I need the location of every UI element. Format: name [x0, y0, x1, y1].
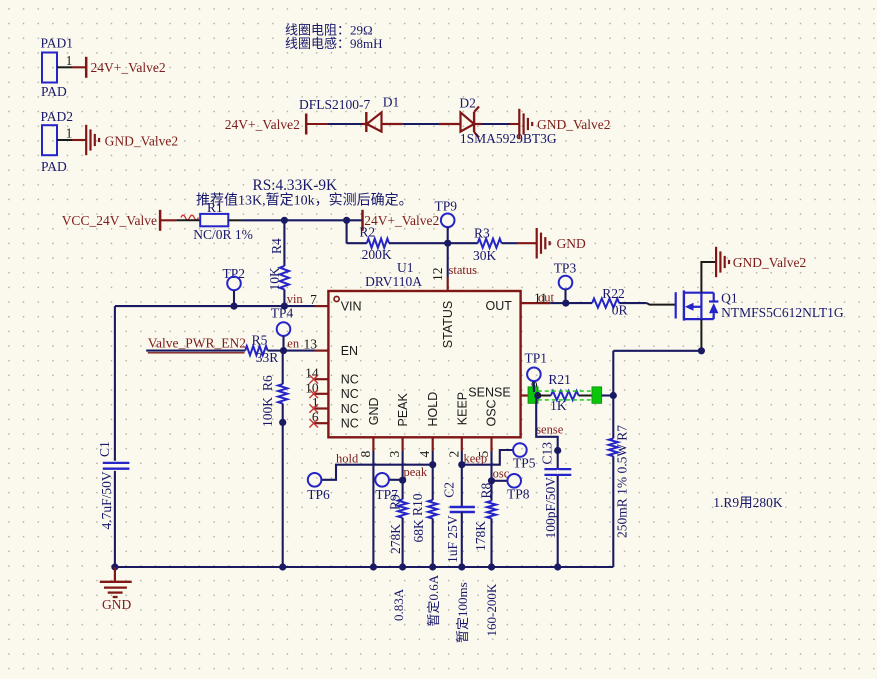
net label en [287, 337, 300, 351]
pin 13 EN [304, 337, 329, 352]
svg-text:3: 3 [387, 451, 402, 458]
svg-text:4: 4 [417, 451, 432, 458]
net label hold + TP6 wire [321, 452, 432, 480]
svg-text:R10: R10 [410, 493, 425, 516]
svg-text:100pF/50V: 100pF/50V [543, 477, 558, 539]
svg-text:en: en [287, 337, 300, 351]
svg-text:PAD2: PAD2 [41, 109, 74, 124]
net label peak + TP7 wire [389, 465, 428, 480]
junction R21/R7 [610, 392, 617, 399]
svg-text:SENSE: SENSE [468, 385, 510, 399]
svg-text:2: 2 [446, 451, 461, 458]
svg-text:vin: vin [287, 292, 304, 306]
capacitor C1 4.7uF/50V [97, 441, 129, 529]
svg-text:TP8: TP8 [507, 487, 530, 502]
test point TP5 [513, 443, 536, 470]
junction rail R6 [279, 563, 286, 570]
junction at TP9/STATUS node [444, 240, 451, 247]
wire ground rail [115, 566, 613, 568]
pin 10 NC [305, 380, 328, 398]
junction hold/HOLD pin [429, 461, 436, 468]
junction TP3/OUT [562, 300, 569, 307]
svg-text:RS:4.33K-9K: RS:4.33K-9K [253, 177, 338, 194]
svg-text:hold: hold [336, 452, 359, 466]
op-amp U1 DRV110A body [328, 260, 520, 437]
pin names of U1 [341, 299, 513, 431]
note coil resistance/inductance [285, 23, 383, 52]
svg-text:30K: 30K [473, 248, 497, 263]
power port VCC_24V_Valve [62, 210, 177, 231]
svg-text:GND_Valve2: GND_Valve2 [733, 255, 807, 270]
net label sense + wire to C13 [536, 396, 564, 568]
svg-text:R21: R21 [548, 372, 571, 387]
resistor R6 100K [260, 351, 287, 427]
test point TP6 [307, 473, 330, 502]
resistor R5 33R [245, 333, 283, 366]
svg-text:12: 12 [430, 268, 445, 282]
wire STATUS to node [447, 243, 449, 277]
pad right of R21 (highlight) [592, 387, 602, 403]
resistor R2 200K [347, 220, 448, 261]
svg-text:GND_Valve2: GND_Valve2 [105, 134, 179, 149]
svg-text:278K: 278K [388, 524, 403, 554]
svg-text:178K: 178K [473, 521, 488, 551]
wire R21 to R7 [602, 394, 614, 396]
svg-text:1SMA5929BT3G: 1SMA5929BT3G [460, 131, 557, 146]
pin 1 NC [309, 395, 328, 413]
note 0.83A [391, 588, 406, 621]
svg-text:R9: R9 [387, 494, 402, 510]
junction at R2 tap [343, 217, 350, 224]
junction sense wire [554, 447, 561, 454]
svg-text:暂定0.6A: 暂定0.6A [426, 574, 441, 626]
svg-text:status: status [449, 263, 478, 277]
svg-text:0R: 0R [612, 303, 628, 318]
svg-text:1: 1 [66, 53, 73, 68]
test point TP1 [525, 351, 548, 393]
test point TP3 [554, 261, 577, 304]
svg-text:DFLS2100-7: DFLS2100-7 [299, 97, 371, 112]
power port 24V+_Valve2 at PAD1 [72, 57, 166, 78]
svg-text:PAD1: PAD1 [41, 36, 74, 51]
svg-text:PEAK: PEAK [396, 392, 410, 426]
svg-text:推荐值13K,暂定10k，实测后确定。: 推荐值13K,暂定10k，实测后确定。 [196, 193, 413, 209]
junction keep/KEEP pin [458, 461, 465, 468]
svg-text:R5: R5 [252, 333, 268, 348]
power port 24V+_Valve2 at D1 [225, 114, 328, 135]
svg-text:GND: GND [557, 236, 586, 251]
pin 2 bottom of U1 [446, 437, 462, 457]
svg-text:keep: keep [464, 452, 488, 466]
svg-text:NC: NC [341, 417, 359, 431]
pin 8 bottom of U1 [358, 437, 374, 457]
pin 5 bottom of U1 [476, 437, 492, 457]
note 100ms [455, 582, 470, 643]
pin 4 bottom of U1 [417, 437, 433, 457]
junction osc/OSC pin [488, 477, 495, 484]
svg-text:STATUS: STATUS [441, 301, 455, 348]
svg-text:1: 1 [66, 126, 73, 141]
connector PAD2 [41, 109, 74, 174]
test point TP2 [223, 266, 246, 306]
svg-text:NTMFS5C612NLT1G: NTMFS5C612NLT1G [721, 305, 844, 320]
net label vin [287, 292, 304, 306]
svg-text:线圈电感：98mH: 线圈电感：98mH [285, 36, 383, 51]
pin 11 OUT [521, 291, 551, 306]
test point TP4 [271, 306, 294, 351]
test point TP9 [435, 199, 458, 244]
svg-text:24V+_Valve2: 24V+_Valve2 [225, 117, 300, 132]
svg-text:TP6: TP6 [307, 487, 330, 502]
junction rail left [111, 563, 118, 570]
wire R1 to 24V node [242, 219, 363, 221]
power port GND_Valve2 at Q1 [716, 247, 806, 277]
note 160-200K [484, 583, 499, 636]
note 0.6A [426, 574, 441, 626]
junction source [698, 347, 705, 354]
net label Valve_PWR_EN2 [148, 336, 246, 353]
svg-text:R1: R1 [207, 200, 223, 215]
svg-text:TP2: TP2 [223, 266, 246, 281]
pin 14 NC [305, 366, 328, 384]
power port 24V+_Valve2 at node [363, 210, 440, 231]
transistor Q1 NTMFS5C612NLT1G [676, 290, 844, 320]
svg-text:KEEP: KEEP [455, 392, 469, 425]
svg-text:Valve_PWR_EN2: Valve_PWR_EN2 [148, 336, 246, 351]
power port GND_Valve2 at D2 [510, 109, 611, 139]
svg-text:DRV110A: DRV110A [365, 274, 422, 289]
svg-text:TP3: TP3 [554, 261, 577, 276]
pin 1 of PAD1 [57, 53, 72, 68]
pin 3 bottom of U1 [387, 437, 403, 457]
svg-text:C13: C13 [540, 442, 555, 465]
note R9 use 280K [713, 495, 783, 510]
svg-text:EN: EN [341, 344, 358, 358]
resistor R9 278K on PEAK [387, 451, 407, 571]
svg-text:7: 7 [310, 292, 317, 307]
svg-text:PAD: PAD [41, 159, 67, 174]
pin 6 NC [309, 410, 328, 428]
svg-text:13: 13 [304, 337, 318, 352]
pin wire into R1 [176, 219, 200, 221]
wire source down [700, 319, 702, 351]
wire Valve_PWR_EN2 to R5 [146, 350, 245, 352]
capacitor C13 100pF/50V [540, 442, 572, 539]
power port GND_Valve2 at PAD2 [72, 125, 178, 155]
capacitor C2 1uF 25V on KEEP [441, 451, 475, 571]
svg-text:24V+_Valve2: 24V+_Valve2 [91, 60, 166, 75]
ground GND symbol [100, 567, 132, 612]
resistor R7 250mR [609, 351, 630, 567]
svg-text:OSC: OSC [485, 399, 499, 426]
junction rail C13 [554, 563, 561, 570]
wire left vertical [114, 306, 116, 567]
highlight dashes around R21 [538, 391, 594, 400]
wire drain to GND_Valve2 [701, 262, 716, 293]
svg-text:NC/0R 1%: NC/0R 1% [193, 227, 253, 242]
pin 12 STATUS [430, 268, 448, 292]
power port GND at R3 [517, 228, 586, 258]
wire to EN pin [284, 350, 315, 352]
svg-text:VIN: VIN [341, 300, 362, 314]
svg-text:NC: NC [341, 402, 359, 416]
junction TP2 [230, 303, 237, 310]
svg-text:TP4: TP4 [271, 306, 294, 321]
junction at R4 top [281, 217, 288, 224]
resistor R22 0R [566, 286, 647, 318]
svg-text:GND: GND [102, 597, 131, 612]
svg-text:U1: U1 [397, 260, 414, 275]
test point TP8 [507, 474, 530, 502]
note RS recommendation [196, 177, 413, 209]
pin 1 of PAD2 [57, 126, 72, 141]
wire 24V+_Valve2 to D1 [328, 123, 362, 125]
resistor R8 178K on OSC [473, 451, 496, 571]
svg-text:NC: NC [341, 387, 359, 401]
svg-text:peak: peak [404, 465, 428, 479]
wire source to R7 [613, 350, 701, 352]
resistor R3 30K [448, 225, 517, 262]
wire vin rail [115, 305, 315, 307]
svg-text:4.7uF/50V: 4.7uF/50V [99, 471, 114, 529]
svg-text:1.R9用280K: 1.R9用280K [713, 495, 783, 510]
diode D2 1SMA5929BT3G (zener) [439, 96, 557, 147]
svg-text:C2: C2 [441, 482, 456, 498]
svg-text:100K: 100K [260, 397, 275, 427]
svg-text:R4: R4 [269, 238, 284, 254]
wire GND pin 8 to rail [370, 451, 377, 571]
wire OUT to junction [550, 302, 566, 304]
resistor R1 NC/0R 1% [193, 200, 253, 242]
svg-text:160-200K: 160-200K [484, 583, 499, 636]
resistor R4 10K [267, 220, 289, 306]
pad left of R21 (highlight) [528, 387, 538, 403]
svg-text:C1: C1 [97, 441, 112, 457]
svg-text:PAD: PAD [41, 84, 67, 99]
svg-text:250mR 1% 0.5W R7: 250mR 1% 0.5W R7 [615, 425, 630, 538]
svg-text:8: 8 [358, 451, 373, 458]
svg-text:R2: R2 [359, 224, 375, 239]
junction R4 bottom [281, 303, 288, 310]
svg-text:33R: 33R [256, 350, 279, 365]
svg-text:HOLD: HOLD [426, 392, 440, 427]
svg-text:GND_Valve2: GND_Valve2 [537, 117, 611, 132]
svg-text:R22: R22 [602, 286, 625, 301]
svg-text:TP1: TP1 [525, 351, 548, 366]
pin 7 VIN [310, 292, 328, 307]
wire R6 to ground rail [282, 422, 284, 567]
svg-text:24V+_Valve2: 24V+_Valve2 [364, 213, 439, 228]
svg-text:D1: D1 [383, 95, 400, 110]
svg-text:R3: R3 [474, 225, 490, 240]
resistor R10 68K on HOLD [410, 451, 437, 571]
svg-text:NC: NC [341, 373, 359, 387]
svg-text:68K: 68K [411, 519, 426, 543]
pin 9 SENSE [521, 379, 538, 396]
junction sense node [534, 392, 541, 399]
net label keep + TP5 wire [462, 450, 513, 466]
svg-text:TP5: TP5 [513, 456, 536, 471]
wire D1 to D2 [402, 123, 439, 125]
svg-text:暂定100ms: 暂定100ms [455, 582, 470, 643]
diode D1 DFLS2100-7 [299, 95, 402, 133]
svg-text:200K: 200K [362, 247, 392, 262]
net label osc + TP8 wire [492, 467, 510, 481]
net label status [449, 263, 478, 277]
test point TP7 [375, 473, 398, 502]
svg-text:10K: 10K [267, 267, 282, 291]
pin wire out of R1 [228, 219, 242, 221]
net label out [538, 291, 555, 305]
svg-text:1uF 25V: 1uF 25V [445, 515, 460, 563]
svg-text:Q1: Q1 [721, 291, 738, 306]
svg-text:TP9: TP9 [435, 199, 458, 214]
svg-text:sense: sense [536, 423, 564, 437]
junction R6 bottom [279, 419, 286, 426]
svg-text:0.83A: 0.83A [391, 588, 406, 621]
svg-text:R8: R8 [478, 482, 493, 498]
junction TP4/EN [280, 347, 287, 354]
svg-text:R6: R6 [260, 375, 275, 391]
svg-text:VCC_24V_Valve: VCC_24V_Valve [62, 213, 157, 228]
resistor R21 1K [538, 372, 592, 413]
wire R22 to gate [647, 303, 676, 305]
svg-text:OUT: OUT [486, 299, 513, 313]
junction peak/PEAK pin [399, 477, 406, 484]
svg-text:D2: D2 [459, 96, 476, 111]
ERC marker squiggle at R1 pin [181, 215, 199, 220]
svg-text:GND: GND [367, 397, 381, 425]
wire D2 to GND_Valve2 [481, 123, 510, 125]
connector PAD1 [41, 36, 74, 100]
